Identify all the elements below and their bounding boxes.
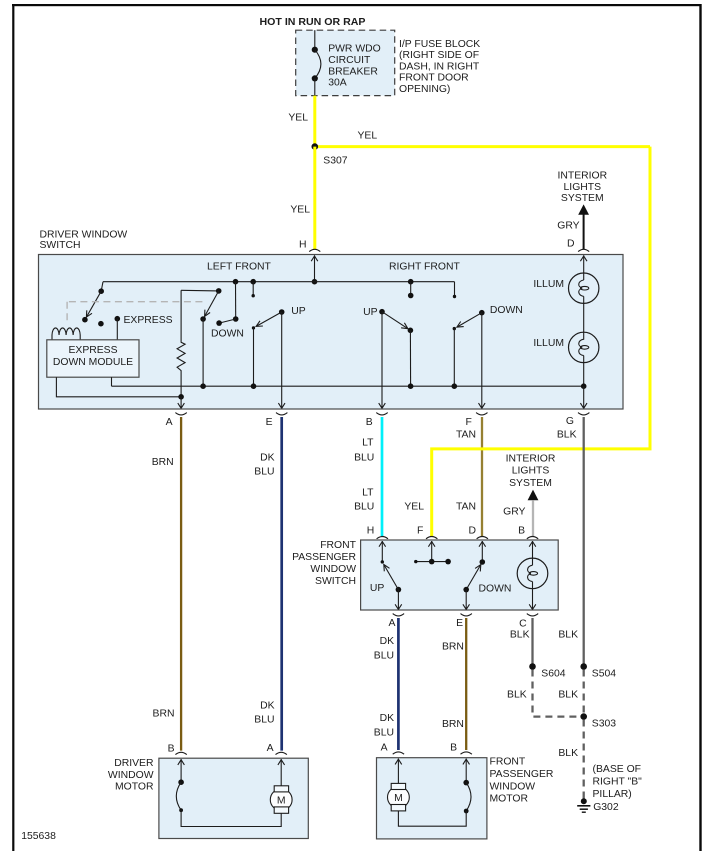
svg-text:B: B [518, 525, 525, 536]
svg-text:A: A [166, 417, 173, 428]
passenger A exit [395, 590, 402, 610]
svg-text:D: D [468, 525, 476, 536]
node INTERIOR LIGHTS SYSTEM (upper) [557, 171, 607, 204]
svg-text:PASSENGER: PASSENGER [292, 552, 356, 563]
svg-text:BLU: BLU [374, 728, 394, 739]
svg-text:A: A [267, 743, 274, 754]
svg-text:F: F [466, 417, 472, 428]
svg-text:EXPRESS: EXPRESS [68, 345, 117, 356]
wire BLK dashed S504 to S303 [583, 670, 585, 717]
exit arrows at driver box bottom [178, 397, 587, 409]
svg-text:155638: 155638 [21, 831, 56, 842]
svg-text:BRN: BRN [152, 457, 174, 468]
left front rail stub contact [250, 279, 256, 297]
svg-text:E: E [456, 618, 463, 629]
svg-text:LIGHTS: LIGHTS [564, 182, 602, 193]
svg-text:H: H [299, 240, 307, 251]
svg-text:M: M [394, 793, 403, 804]
driver window motor label [108, 758, 154, 792]
wire TAN driver F to passenger D [481, 417, 483, 537]
svg-text:BLU: BLU [354, 502, 374, 513]
right front rail stub with contact [408, 279, 414, 298]
svg-text:G302: G302 [593, 802, 619, 813]
svg-text:BLK: BLK [558, 630, 578, 641]
svg-text:FRONT: FRONT [320, 540, 356, 551]
svg-text:BLK: BLK [558, 748, 578, 759]
connector pin H (driver switch top) [309, 249, 320, 251]
node INTERIOR LIGHTS SYSTEM (lower) [506, 453, 556, 489]
left front UP switch [251, 306, 306, 389]
wire E common exit [281, 312, 283, 402]
svg-text:UP: UP [370, 583, 385, 594]
svg-text:DOWN: DOWN [479, 583, 512, 594]
svg-text:SYSTEM: SYSTEM [509, 478, 552, 489]
svg-text:DK: DK [380, 713, 395, 724]
svg-text:RIGHT "B": RIGHT "B" [593, 776, 643, 787]
wire module right stub to bottom rail [111, 377, 113, 386]
svg-text:TAN: TAN [456, 502, 476, 513]
wire top rail [103, 281, 455, 283]
passenger E exit [463, 590, 470, 610]
svg-text:YEL: YEL [288, 113, 308, 124]
svg-text:BLK: BLK [557, 430, 577, 441]
svg-text:CIRCUIT: CIRCUIT [328, 55, 371, 66]
lamp ILLUM 1 [533, 273, 599, 332]
svg-text:A: A [381, 743, 388, 754]
svg-text:RIGHT FRONT: RIGHT FRONT [389, 261, 460, 272]
inductor L1 (coil) [52, 328, 80, 340]
svg-text:(BASE OF: (BASE OF [593, 764, 642, 775]
svg-text:BLU: BLU [254, 715, 274, 726]
driver window motor box M1 [159, 758, 308, 838]
express switch SW1 [82, 282, 104, 323]
svg-text:OPENING): OPENING) [399, 84, 450, 95]
svg-text:MOTOR: MOTOR [490, 794, 529, 805]
wire GRY/BLK driver G down to S504 [583, 417, 585, 667]
wire DK BLU driver E to motor [280, 417, 283, 751]
motor M (driver) [270, 759, 292, 813]
wire GRY driver D to interior lights [583, 215, 585, 250]
lamp passenger illumination [517, 541, 548, 610]
svg-text:DK: DK [260, 701, 275, 712]
front passenger window switch box U3 [361, 540, 559, 610]
wire BRN driver A to motor [180, 417, 182, 751]
wire F common exit [481, 313, 483, 402]
svg-text:INTERIOR: INTERIOR [557, 171, 607, 182]
svg-text:A: A [388, 618, 395, 629]
connector pins H F D B (passenger switch top) [367, 525, 538, 538]
svg-text:BLK: BLK [507, 689, 527, 700]
wire H feed into box [311, 255, 318, 284]
svg-text:INTERIOR: INTERIOR [506, 453, 556, 464]
svg-text:BLU: BLU [254, 466, 274, 477]
passenger F post with bar [414, 541, 451, 564]
svg-text:UP: UP [363, 307, 378, 318]
svg-text:I/P FUSE BLOCK: I/P FUSE BLOCK [399, 39, 480, 50]
svg-text:DK: DK [380, 636, 395, 647]
svg-text:DK: DK [260, 452, 275, 463]
svg-text:WINDOW: WINDOW [108, 770, 154, 781]
node EXPRESS [115, 315, 173, 340]
svg-text:M: M [277, 796, 286, 807]
svg-text:B: B [450, 743, 457, 754]
connector pins A B (passenger motor) [381, 743, 472, 755]
svg-text:BLU: BLU [374, 651, 394, 662]
svg-text:ILLUM: ILLUM [533, 279, 564, 290]
svg-text:S303: S303 [592, 718, 616, 729]
svg-text:LT: LT [362, 487, 374, 498]
wire B common exit [381, 312, 383, 402]
splice S604 [529, 663, 536, 670]
connector pins A E B F G (driver box bottom) [166, 413, 590, 429]
right front UP switch [363, 307, 413, 389]
svg-text:GRY: GRY [557, 221, 579, 232]
svg-text:(RIGHT SIDE OF: (RIGHT SIDE OF [399, 50, 479, 61]
connector pins B A (driver motor) [168, 743, 287, 755]
svg-text:LEFT FRONT: LEFT FRONT [207, 261, 272, 272]
svg-text:TAN: TAN [456, 430, 476, 441]
passenger motor brush arm [398, 759, 471, 827]
front passenger window switch label [292, 540, 357, 587]
svg-text:WINDOW: WINDOW [310, 564, 356, 575]
svg-text:E: E [266, 417, 273, 428]
wire G exit [583, 386, 585, 402]
left front common blade [216, 279, 238, 326]
svg-text:B: B [168, 743, 175, 754]
wire BLK dashed S604 to S303 [533, 670, 584, 717]
circuit breaker PWR WDO 30A [312, 30, 381, 95]
right front rail corner stub [453, 282, 456, 298]
passenger UP switch [370, 565, 401, 595]
express down module U2 [47, 340, 139, 377]
driver window switch box U1 [39, 255, 624, 410]
wire BLK dashed S303 to G302 [583, 720, 585, 800]
svg-text:DASH, IN RIGHT: DASH, IN RIGHT [399, 62, 480, 73]
passenger H post [379, 541, 386, 564]
svg-text:C: C [519, 619, 527, 630]
svg-text:FRONT DOOR: FRONT DOOR [399, 73, 469, 84]
svg-text:GRY: GRY [503, 507, 525, 518]
splice S504 [580, 663, 587, 670]
svg-text:BLK: BLK [558, 689, 578, 700]
splice S303 [580, 713, 587, 720]
svg-text:H: H [367, 525, 375, 536]
front passenger window motor label [490, 757, 554, 805]
svg-text:BLK: BLK [510, 630, 530, 641]
svg-text:FRONT: FRONT [490, 757, 526, 768]
arrow to interior lights lower (filled) [528, 490, 539, 501]
svg-text:UP: UP [291, 306, 306, 317]
driver motor brush arm [176, 759, 281, 827]
svg-text:LT: LT [362, 437, 374, 448]
front passenger window motor box M2 [377, 758, 487, 839]
svg-text:PASSENGER: PASSENGER [490, 769, 554, 780]
ground G302 [577, 798, 619, 813]
I/P fuse block dashed box [296, 30, 395, 95]
svg-text:HOT IN RUN OR RAP: HOT IN RUN OR RAP [260, 17, 366, 28]
svg-text:30A: 30A [328, 77, 347, 88]
svg-text:SYSTEM: SYSTEM [561, 193, 604, 204]
svg-text:BRN: BRN [442, 719, 464, 730]
wire YEL breaker to S307 [313, 96, 316, 147]
passenger D post / DOWN switch [463, 541, 511, 594]
motor M (passenger) [388, 759, 410, 811]
left front DOWN switch blade [200, 288, 244, 389]
svg-text:DRIVER: DRIVER [114, 758, 154, 769]
svg-text:B: B [366, 417, 373, 428]
svg-text:S604: S604 [541, 668, 565, 679]
express contact dot [98, 321, 104, 327]
connector pin D (driver switch top) [578, 249, 589, 251]
wire BLK passenger C to S604 [531, 618, 533, 667]
wire DK BLU passenger A to motor [397, 618, 400, 750]
svg-text:D: D [567, 238, 575, 249]
wire YEL S307 to right edge [315, 145, 650, 148]
wire module left stub to A [56, 377, 181, 397]
arrow to interior lights (filled) [578, 204, 589, 214]
svg-text:SWITCH: SWITCH [40, 240, 81, 251]
wire LT BLU driver B to passenger H [381, 417, 384, 537]
svg-text:YEL: YEL [358, 131, 378, 142]
svg-text:F: F [417, 525, 423, 536]
ground location note [593, 764, 643, 800]
svg-text:S307: S307 [323, 155, 347, 166]
right front DOWN switch [452, 305, 523, 389]
svg-text:ILLUM: ILLUM [533, 338, 564, 349]
svg-text:MOTOR: MOTOR [115, 781, 154, 792]
connector pins A E C (passenger switch bottom) [388, 614, 538, 630]
svg-text:DOWN MODULE: DOWN MODULE [53, 357, 133, 368]
svg-text:BLU: BLU [354, 453, 374, 464]
wire YEL S307 to driver switch H [313, 147, 316, 249]
splice S307 [312, 143, 319, 150]
mechanical link dashed [69, 301, 206, 303]
svg-text:DOWN: DOWN [490, 305, 523, 316]
svg-text:LIGHTS: LIGHTS [512, 466, 550, 477]
svg-text:WINDOW: WINDOW [490, 781, 536, 792]
svg-text:SWITCH: SWITCH [315, 576, 356, 587]
svg-text:BRN: BRN [442, 642, 464, 653]
svg-text:DOWN: DOWN [211, 328, 244, 339]
svg-text:YEL: YEL [404, 502, 424, 513]
svg-text:PILLAR): PILLAR) [593, 789, 632, 800]
lamp ILLUM 2 [533, 332, 599, 389]
wire bottom rail [112, 385, 584, 387]
svg-text:S504: S504 [592, 668, 616, 679]
svg-text:YEL: YEL [290, 204, 310, 215]
wire GRY passenger B to interior lights [532, 500, 534, 537]
svg-text:EXPRESS: EXPRESS [124, 315, 173, 326]
svg-text:BREAKER: BREAKER [328, 66, 378, 77]
wire BRN passenger E to motor [465, 618, 467, 750]
wire YEL right drop to passenger F [432, 147, 650, 537]
resistor R1 [177, 290, 219, 399]
svg-text:G: G [566, 416, 574, 427]
I/P fuse block location note [399, 39, 480, 95]
svg-text:BRN: BRN [153, 709, 175, 720]
illumination column feed [580, 255, 587, 273]
svg-text:PWR WDO: PWR WDO [328, 44, 381, 55]
svg-text:DRIVER WINDOW: DRIVER WINDOW [40, 229, 128, 240]
